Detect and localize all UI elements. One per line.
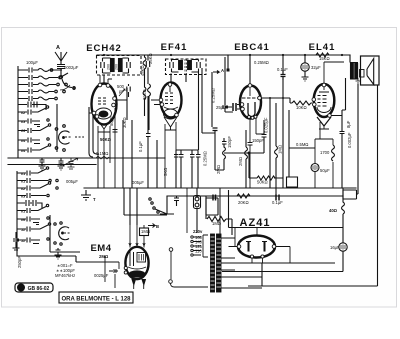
svg-text:15KΩ: 15KΩ	[319, 56, 330, 61]
svg-text:250pF: 250pF	[17, 256, 22, 268]
resistor 0.1M zigzag	[96, 156, 109, 159]
cathode dark	[99, 111, 108, 117]
antenna A	[55, 52, 67, 61]
svg-text:25KΩ: 25KΩ	[148, 53, 153, 64]
voice coil	[360, 70, 365, 78]
transformer secondary winding	[217, 234, 222, 292]
wire grid return verticals	[89, 107, 99, 157]
side pins	[113, 97, 117, 101]
tube EF41 envelope	[161, 83, 182, 118]
side pins	[240, 103, 244, 107]
svg-text:50KΩ: 50KΩ	[100, 137, 112, 142]
electrolytic 32uF plates	[303, 65, 307, 70]
capacitor 100uF row1	[18, 68, 74, 91]
junction dot coupling cap	[282, 97, 284, 99]
wire EBC41 left pins	[225, 105, 241, 110]
capacitor row5	[18, 96, 57, 101]
arrow B	[148, 224, 155, 228]
trimmer row9	[18, 138, 49, 144]
wire rail drop to ECH42	[103, 75, 105, 83]
rotor 1 shaft dash	[65, 136, 71, 138]
svg-text:50KΩ: 50KΩ	[257, 180, 268, 185]
svg-text:1MΩ: 1MΩ	[212, 221, 221, 226]
pin circle EF41 right	[175, 113, 179, 117]
wire rectifier output	[248, 263, 378, 286]
speaker cone	[367, 59, 374, 85]
svg-text:GB 86-02: GB 86-02	[28, 286, 50, 292]
grid dashes	[318, 96, 327, 107]
wire col x289 box 50K	[287, 110, 298, 187]
rotor 2 circle	[59, 227, 69, 240]
trimmer row6	[18, 106, 49, 115]
side pins	[159, 98, 163, 102]
wire plate to grid	[262, 98, 293, 103]
wire left pins	[151, 100, 160, 105]
svg-text:T: T	[93, 197, 96, 202]
svg-text:B: B	[156, 224, 159, 229]
heater V	[97, 119, 111, 132]
wire bank2 to EM4	[17, 248, 76, 262]
capacitor 0.1uF bottom	[276, 195, 279, 201]
pin circle EBC41 top	[248, 84, 252, 88]
pin circle EBC41 right	[258, 96, 262, 100]
svg-text:8μF: 8μF	[346, 120, 351, 128]
wire tube grid stubs	[89, 113, 95, 117]
svg-text:A: A	[56, 45, 60, 51]
svg-text:0025μF: 0025μF	[94, 273, 109, 278]
wire EF41 top pin	[169, 86, 171, 92]
svg-text:005μF: 005μF	[132, 180, 144, 185]
wire tube pin col with capacitor	[113, 108, 118, 188]
svg-text:U: U	[19, 286, 23, 292]
svg-text:32μF: 32μF	[311, 65, 321, 70]
bank2 bottom ground cap	[55, 248, 62, 259]
coil secondary	[119, 59, 123, 72]
wire AZ41 sides	[229, 228, 291, 264]
capacitor 0025uF left	[109, 269, 118, 273]
terminal PU lower	[169, 280, 173, 284]
svg-text:11: 11	[21, 239, 25, 243]
wire drop to EBC41 grid	[249, 55, 251, 83]
resistor 50K det	[257, 176, 275, 180]
wire antenna switch arc	[62, 79, 72, 88]
capacitor 25pF	[222, 103, 233, 112]
transformer windings	[211, 234, 215, 292]
wire EL41 heater bar	[319, 126, 329, 129]
wire transformer secondary	[345, 78, 347, 110]
pins below triangles	[132, 280, 146, 286]
switch contacts rotor 2 lower	[54, 242, 56, 244]
capacitor can2 cell2	[192, 60, 201, 73]
svg-text:ECH42: ECH42	[86, 43, 122, 54]
EM4 target screen hatch	[139, 254, 144, 261]
pin circle EL41 bottom	[328, 114, 332, 118]
wire osc resistor column	[148, 96, 150, 130]
svg-text:2MΩ: 2MΩ	[99, 254, 109, 259]
svg-text:0.1μF: 0.1μF	[272, 200, 283, 205]
wire osc grid	[116, 88, 127, 120]
secondary line y=196	[167, 195, 343, 197]
side pins	[312, 98, 316, 102]
svg-text:EF41: EF41	[161, 42, 188, 53]
rotor 2 center dot	[62, 232, 64, 234]
capacitor pair x192 x198	[190, 150, 201, 188]
wire EBC41 grid stem	[249, 88, 251, 96]
svg-text:20KΩ: 20KΩ	[238, 200, 249, 205]
rotor 1 shaft dash 2	[75, 136, 84, 138]
junction dot EBC41 plate	[269, 97, 271, 99]
wire y=158 left	[8, 157, 165, 159]
svg-text:30KΩ: 30KΩ	[122, 117, 127, 128]
bank2 double cap	[17, 200, 42, 208]
switch contact antenna	[73, 87, 76, 90]
wires below	[320, 116, 342, 140]
main bus y=188	[84, 187, 356, 189]
wires below	[250, 118, 256, 142]
svg-text:100μF: 100μF	[26, 60, 38, 65]
wire HV secondary to bus	[219, 188, 221, 234]
switch contacts mid	[149, 198, 151, 200]
svg-text:005μF: 005μF	[66, 179, 78, 184]
wires above with arrows	[130, 225, 144, 248]
wire EM4 feed y215	[124, 214, 167, 216]
coil can2 cell2	[188, 61, 192, 70]
junction dots on B+ rail right	[282, 54, 284, 56]
svg-text:10KΩ: 10KΩ	[296, 105, 307, 110]
wire AZ41 pin leads	[252, 258, 263, 263]
side pin circles	[237, 245, 241, 249]
tube ECH42 envelope	[92, 84, 117, 125]
switch contacts rotor 1	[55, 128, 58, 131]
wire bank1 feed	[17, 66, 19, 158]
resistor 2M vertical b	[245, 130, 248, 188]
wires below	[165, 122, 176, 188]
heater V	[164, 117, 177, 130]
dark base	[129, 271, 145, 277]
ground capacitor b	[58, 158, 65, 170]
top rail y=55	[97, 54, 350, 56]
wire mains switch arm	[155, 196, 174, 214]
wire col x283	[282, 80, 284, 188]
pin circles ECH42 left	[92, 111, 96, 115]
terminal PU	[169, 248, 173, 252]
winding hatch secondary	[217, 239, 222, 287]
svg-text:01: 01	[21, 172, 25, 176]
capacitor row2	[18, 73, 68, 80]
primary tap terminals	[191, 236, 193, 238]
rotor 1 circle	[59, 131, 70, 144]
junction dot detector	[248, 152, 250, 154]
junction dots on rail	[103, 54, 343, 72]
svg-text:16μF: 16μF	[330, 245, 340, 250]
trimmer row7	[18, 119, 49, 127]
wire primary tap stubs	[193, 237, 201, 255]
svg-text:EL41: EL41	[309, 42, 336, 53]
switch contact mains	[157, 211, 159, 213]
wires below tube	[98, 126, 110, 188]
capacitor pair x176 x181	[174, 150, 184, 188]
ground capacitor a	[39, 158, 46, 170]
svg-text:EM4: EM4	[90, 243, 111, 254]
wire cathode rail y139	[315, 139, 333, 188]
svg-text:2MΩ: 2MΩ	[238, 157, 243, 166]
output transformer secondary	[355, 64, 358, 79]
grid dashes	[98, 98, 106, 104]
pins	[250, 255, 253, 258]
wire cathode down	[97, 158, 99, 188]
svg-text:pF: pF	[119, 89, 124, 94]
svg-text:200: 200	[107, 64, 111, 70]
trimmer row10	[18, 144, 51, 153]
IF can 2 box	[166, 59, 207, 75]
resistor 1MΩ EM4 grid	[140, 228, 149, 236]
svg-text:01: 01	[21, 210, 25, 214]
bottom pins	[248, 116, 251, 119]
svg-text:0.002μF: 0.002μF	[347, 132, 352, 148]
resistor 1700 vertical	[332, 145, 335, 161]
svg-text:01: 01	[21, 180, 25, 184]
wire coupling cap drop	[282, 55, 284, 71]
secondary taps right	[221, 238, 262, 288]
electrolytic 16uF	[339, 243, 347, 251]
output transformer	[351, 64, 354, 79]
resistor 20K zigzag	[237, 194, 250, 198]
wire col x198 from can2	[176, 72, 199, 150]
resistor 1M zigzag	[207, 217, 226, 222]
capacitor 500pF	[127, 84, 130, 97]
inner circle	[164, 109, 178, 119]
svg-text:200: 200	[115, 64, 119, 70]
ground below 32uF	[302, 72, 309, 82]
bank2 row2	[17, 178, 58, 183]
svg-text:0.5MΩ: 0.5MΩ	[296, 142, 308, 147]
svg-text:0.1μF: 0.1μF	[277, 67, 288, 72]
capacitor 0.1uF coupling	[281, 71, 286, 80]
svg-text:0002μF: 0002μF	[64, 65, 79, 70]
capacitor on line x148	[146, 55, 149, 84]
capacitor 150pF below tube	[248, 134, 265, 188]
fluorescent arc	[128, 267, 146, 269]
wire verticals	[202, 57, 225, 133]
divider	[185, 59, 187, 75]
winding hatch primary	[211, 237, 215, 289]
trimmer row8	[18, 124, 51, 133]
bank2 row8	[17, 238, 49, 244]
svg-text:2MΩ: 2MΩ	[216, 165, 221, 174]
band switch rotor 2	[50, 215, 80, 252]
svg-text:MF467kHz: MF467kHz	[55, 273, 75, 278]
electrolytic 50uF	[311, 164, 319, 172]
wire col x123	[122, 120, 124, 188]
switch contacts rotor 1 lower	[55, 147, 58, 150]
svg-text:220v: 220v	[193, 229, 203, 234]
resistor 15K on rail	[316, 53, 329, 57]
side pin circles	[124, 266, 127, 269]
suppressor arc EF41	[164, 107, 178, 109]
pin top circles	[98, 83, 102, 87]
capacitor dark y196	[213, 195, 216, 201]
primary coil left	[203, 235, 208, 257]
AZ41 anode top bars	[246, 241, 267, 243]
junction dots on B+ rail	[103, 54, 105, 56]
bank2 row5	[17, 204, 49, 213]
wire pilot lamp leads	[196, 188, 198, 233]
svg-text:45KΩ: 45KΩ	[140, 65, 145, 76]
title box	[59, 292, 133, 303]
wire drops below bus	[124, 188, 137, 225]
grid dashes	[165, 93, 173, 104]
wire to output transformer	[349, 55, 351, 62]
anodes	[249, 242, 265, 252]
tube EM4 envelope	[125, 247, 148, 279]
capacitor left dark	[233, 103, 236, 111]
bank2 row6	[17, 217, 49, 225]
ground T	[81, 190, 91, 200]
antenna capacitor 0002uF	[57, 61, 65, 75]
svg-text:150pF: 150pF	[252, 138, 264, 143]
wire y228	[229, 190, 344, 228]
wire col x132	[131, 120, 133, 188]
pilot lamp	[194, 196, 201, 209]
resistor 10K zigzag	[292, 101, 312, 105]
IF can 1 box	[97, 56, 142, 76]
wire col x270	[269, 98, 271, 188]
capacitor row3	[18, 82, 67, 87]
capacitor 0.1uF mid on x148	[146, 96, 151, 188]
inner arc	[317, 107, 331, 113]
electrolytic 16uF plates	[341, 245, 345, 250]
capacitor 150pF b	[262, 120, 267, 153]
svg-text:1MΩ: 1MΩ	[141, 229, 150, 234]
capacitor 250pF	[13, 232, 20, 250]
junction square node B	[227, 69, 230, 72]
wire EM4 grid network	[105, 256, 119, 288]
resistor 25K vertical wavy	[148, 84, 151, 96]
grid anode U fold	[248, 102, 255, 117]
bank2 row4	[17, 193, 49, 198]
svg-text:110: 110	[195, 249, 202, 254]
wire ECH42 top pins	[100, 75, 112, 84]
capacitor 0.002uF right	[340, 110, 346, 188]
svg-text:25pF: 25pF	[216, 105, 226, 110]
wire EL41 screen drop	[304, 55, 306, 62]
tube EBC41 envelope	[240, 86, 261, 119]
capacitor mains	[174, 196, 179, 206]
triode section	[96, 108, 112, 119]
svg-text:5KΩ: 5KΩ	[163, 168, 168, 176]
capacitor in can1 right	[123, 58, 131, 73]
svg-text:40Ω: 40Ω	[329, 208, 338, 213]
wire 0.5M	[289, 147, 315, 149]
resistor 40ohm vertical	[342, 188, 345, 243]
wire PU link	[170, 252, 172, 280]
wire 1M resistor leads	[206, 196, 232, 235]
switch wiper arc	[60, 85, 70, 90]
diode plate dashdot	[242, 97, 259, 99]
svg-text:0.25MΩ: 0.25MΩ	[211, 88, 216, 103]
wire rail drop to EF41	[170, 74, 172, 81]
logo box	[15, 283, 53, 292]
rotor 2 shaft dash	[64, 232, 71, 234]
EM4 target screen rect	[137, 253, 146, 263]
bank2 row3	[17, 182, 58, 191]
resistor 45K vertical wavy	[143, 55, 146, 116]
band switch rotor 1	[55, 104, 84, 152]
wire EBC41 top pin	[249, 80, 251, 84]
wire junction y153	[215, 153, 264, 170]
capacitor in can1 left	[101, 58, 111, 73]
tube AZ41 envelope	[238, 236, 275, 258]
capacitor can2 cell1	[170, 60, 179, 73]
bank2 row1	[17, 167, 49, 176]
svg-text:1700: 1700	[320, 150, 330, 155]
wire drop node B	[227, 55, 229, 70]
wire y=165 left	[8, 164, 96, 166]
wire speaker leads	[358, 84, 378, 286]
heater V	[317, 117, 331, 126]
electrolytic 32uF	[301, 63, 309, 71]
antenna terminal	[60, 76, 63, 79]
padder capacitor double	[18, 102, 46, 111]
bank2 feed vertical	[16, 171, 18, 248]
wire col x157	[156, 140, 158, 188]
svg-text:1MΩ: 1MΩ	[278, 145, 283, 154]
svg-text:0.25MΩ: 0.25MΩ	[203, 151, 208, 166]
wire y178	[249, 153, 283, 178]
svg-text:EBC41: EBC41	[234, 42, 270, 53]
svg-text:0.1μF: 0.1μF	[138, 141, 143, 152]
rotor 1 center dot	[63, 137, 65, 139]
svg-text:50μF: 50μF	[320, 168, 330, 173]
coil can2 cell1	[179, 61, 183, 70]
capacitor grid blob x215	[213, 128, 218, 131]
wire A arrow	[213, 71, 219, 74]
coil primary	[111, 59, 115, 72]
svg-text:ORA BELMONTE - L 128: ORA BELMONTE - L 128	[61, 297, 131, 303]
svg-text:50μF: 50μF	[109, 116, 114, 126]
bank2 row7	[17, 223, 51, 232]
power transformer primary taps	[186, 188, 188, 233]
wire AVC node	[202, 131, 215, 170]
pilot lamp beads	[195, 197, 199, 201]
capacitor row4	[18, 89, 65, 94]
svg-text:36KΩ: 36KΩ	[142, 89, 147, 100]
pin circle EL41 top	[322, 83, 326, 87]
svg-text:0.025μF: 0.025μF	[264, 117, 269, 133]
resistor 2M vertical a	[222, 138, 227, 170]
wire EL41 plate lead	[319, 62, 344, 92]
svg-text:11: 11	[21, 228, 25, 232]
svg-text:0.25MΩ: 0.25MΩ	[254, 60, 269, 65]
electrolytic 50uF plates	[313, 165, 317, 170]
wire bus end box	[343, 190, 358, 199]
pin circle EF41 top	[168, 83, 172, 87]
wire EM4 pin leads	[134, 285, 144, 289]
wire CT to cap	[222, 251, 343, 272]
svg-text:AZ41: AZ41	[240, 217, 271, 229]
box left of 1M	[206, 198, 218, 215]
vertical labels	[17, 53, 352, 268]
logo emblem circle	[17, 284, 25, 292]
trimmer arrow 500pF	[119, 89, 125, 96]
wire transformer brackets	[350, 63, 358, 80]
ground speaker frame	[356, 78, 361, 83]
ground capacitor c	[62, 158, 78, 169]
deflection electrodes	[130, 250, 134, 266]
svg-text:0.1MΩ: 0.1MΩ	[96, 151, 108, 156]
switch contacts rotor 2	[54, 223, 56, 225]
speaker	[361, 56, 380, 85]
